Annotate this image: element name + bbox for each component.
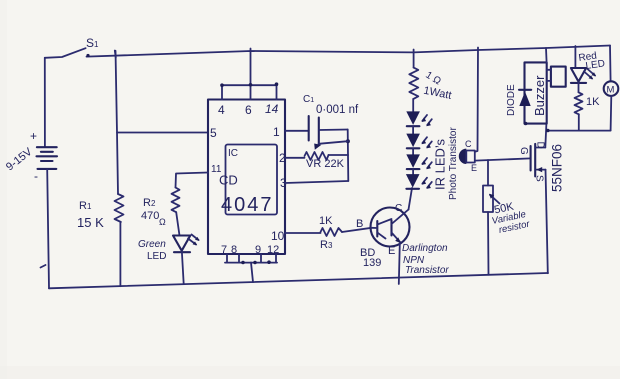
svg-text:S: S [534, 175, 545, 182]
svg-text:12: 12 [267, 244, 279, 256]
svg-text:470: 470 [141, 210, 159, 222]
resistor R2 470 [141, 188, 180, 228]
red LED D6 [571, 68, 596, 83]
svg-text:E: E [471, 163, 477, 173]
wire Q1 emitter to bottom rail [399, 244, 400, 285]
wire 50K to bottom rail [487, 212, 490, 275]
junction node VR wiper [346, 139, 350, 143]
resistor R3 1K [319, 215, 342, 251]
svg-text:-: - [34, 169, 38, 183]
svg-text:1K: 1K [319, 215, 333, 227]
wire pin11 to R2 [176, 173, 209, 188]
svg-text:4047: 4047 [221, 194, 274, 216]
svg-text:VR 22K: VR 22K [306, 158, 345, 170]
IR LED D1 [406, 111, 432, 126]
wire pin1 to C1 [285, 130, 309, 132]
svg-text:1Watt: 1Watt [422, 85, 452, 102]
wire VR to right vertical [329, 154, 349, 156]
wire output bottom rail [548, 130, 611, 132]
svg-text:Photo Transistor: Photo Transistor [448, 127, 459, 200]
svg-text:DIODE: DIODE [506, 84, 517, 116]
capacitor C1 0.001nf [303, 94, 359, 143]
wire top rail corner to buzzer [545, 48, 548, 62]
battery B1 9-15V [37, 147, 58, 169]
diode D5 [519, 90, 531, 106]
wire battery top [44, 58, 46, 147]
svg-text:D: D [535, 142, 546, 149]
wire green LED to bottom rail [182, 252, 184, 284]
IR LED D3 [406, 154, 432, 169]
IC inner box [226, 145, 278, 215]
wire battery bottom / left rail [47, 170, 49, 289]
svg-text:14: 14 [265, 102, 279, 116]
junction dots IC bottom [241, 260, 271, 264]
wire right vertical of VR network [347, 130, 350, 182]
green LED D7 [173, 235, 200, 253]
wire D2-D3 [412, 148, 414, 154]
junction dots IC top [220, 82, 278, 87]
svg-text:C1: C1 [303, 94, 314, 105]
wire drop to 50K pot [487, 160, 489, 186]
transistor Q1 BD139 darlington [371, 208, 410, 247]
junction dot buzzer bottom [524, 122, 528, 126]
svg-text:4: 4 [218, 103, 225, 117]
svg-text:LED: LED [585, 58, 606, 72]
label 50K variable resistor [491, 200, 532, 235]
wire D3-D4 [412, 169, 414, 174]
label Red LED [578, 51, 606, 72]
svg-text:C: C [465, 139, 472, 149]
wire D1-D2 [412, 126, 414, 133]
IR LED D4 [406, 174, 432, 189]
svg-text:B: B [356, 218, 363, 230]
svg-text:11: 11 [211, 164, 222, 175]
potentiometer VR2 50K [483, 186, 500, 213]
svg-text:IR LED’s: IR LED’s [433, 138, 448, 190]
svg-text:M: M [607, 85, 615, 96]
motor M1 [604, 81, 619, 96]
wire R1 rail from top [116, 51, 119, 194]
wire VR wiper arrow [314, 141, 348, 150]
svg-text:C: C [395, 203, 402, 214]
wire R5 to output bottom rail [578, 114, 580, 130]
wire top rail to photo transistor [475, 48, 478, 152]
relay terminal block K1 [547, 67, 566, 87]
resistor R5 1K [575, 92, 601, 114]
resistor R4 1ohm 1watt [409, 68, 452, 102]
svg-text:+: + [30, 129, 37, 143]
svg-text:15 K: 15 K [77, 215, 104, 230]
svg-text:Darlington: Darlington [402, 243, 448, 254]
svg-text:LED: LED [147, 251, 166, 262]
wire bottom rail [49, 273, 548, 288]
svg-text:Buzzer: Buzzer [532, 75, 547, 116]
wire C1 to right vertical [319, 129, 348, 132]
wire R3 to base [342, 228, 372, 232]
IR LED D2 [406, 134, 432, 149]
svg-text:E: E [388, 245, 395, 257]
svg-text:0·001 nf: 0·001 nf [316, 104, 359, 116]
photo transistor PT1 [459, 139, 477, 173]
wire motor bottom [610, 96, 613, 130]
svg-text:55NF06: 55NF06 [550, 144, 565, 192]
svg-text:Transistor: Transistor [405, 265, 449, 276]
wire motor top [609, 46, 612, 82]
svg-text:S1: S1 [86, 36, 99, 50]
wire top rail to R4 [413, 50, 415, 68]
svg-text:5: 5 [210, 126, 217, 140]
label Green LED [138, 239, 166, 262]
svg-text:8: 8 [231, 244, 237, 256]
buzzer BZ1 box [525, 62, 547, 123]
junction tick R1 rail top [115, 51, 116, 58]
wire IC top bracket [222, 49, 278, 100]
stray pen mark [41, 265, 46, 268]
svg-text:R3: R3 [320, 239, 333, 251]
junction dot output rail [546, 129, 550, 133]
wire D6 to R5 [578, 83, 580, 92]
wire R1 to bottom rail [119, 222, 121, 286]
svg-text:G: G [518, 147, 529, 155]
wire Q1 collector to IR leds [409, 188, 413, 210]
wire R4 to D1 [412, 99, 414, 112]
svg-text:Ω: Ω [159, 217, 166, 227]
svg-text:1: 1 [273, 125, 280, 139]
wire R2 to green LED [176, 212, 179, 235]
switch S1 [45, 36, 99, 58]
wire pin3 [285, 181, 348, 183]
wire red led branch from top [574, 46, 576, 68]
wire pin10 to R3 [285, 232, 321, 234]
svg-text:R2: R2 [143, 197, 156, 209]
svg-text:10: 10 [271, 229, 285, 243]
wire pin2 to VR [285, 157, 305, 159]
svg-text:9-15V: 9-15V [4, 145, 35, 173]
wire drain up to buzzer block [545, 124, 546, 148]
potentiometer VR 22K [305, 152, 345, 170]
label Darlington NPN Transistor [402, 243, 449, 276]
resistor R1 15K [77, 194, 124, 230]
svg-text:1K: 1K [586, 96, 600, 108]
wire IC bottom bracket [225, 254, 277, 282]
svg-text:6: 6 [245, 103, 252, 117]
IC U1 CD4047 outer box [208, 100, 285, 255]
svg-text:CD: CD [219, 173, 238, 188]
svg-text:IC: IC [228, 148, 238, 159]
mosfet Q2 55NF06 [531, 144, 546, 177]
svg-text:R1: R1 [79, 200, 92, 212]
label BD 139 [360, 247, 381, 269]
wire mosfet source to bottom rail [546, 170, 548, 274]
svg-text:139: 139 [363, 257, 381, 269]
wire top rail [87, 46, 611, 57]
svg-text:Green: Green [138, 239, 166, 250]
wire pin5 [117, 132, 208, 134]
wire PT emitter to gate [475, 158, 531, 160]
